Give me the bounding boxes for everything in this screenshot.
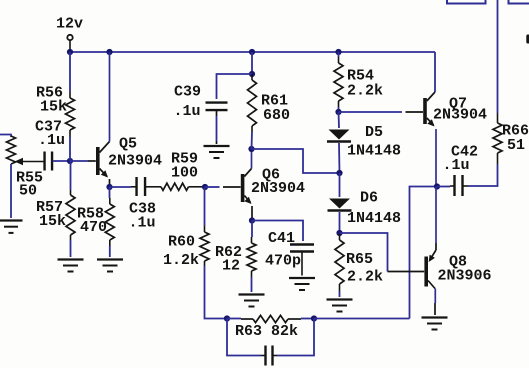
ground R57 [58, 260, 84, 272]
wire node to D5 [338, 112, 341, 128]
svg-text:2N3904: 2N3904 [433, 107, 487, 124]
wire rail to R54 [338, 52, 340, 57]
wire C42 to R66 [463, 164, 498, 186]
svg-text:2N3904: 2N3904 [108, 153, 162, 170]
svg-text:.1u: .1u [38, 132, 65, 149]
transistor Q8 bar [424, 257, 428, 287]
svg-text:.1u: .1u [129, 215, 156, 232]
node R63 right [311, 315, 317, 321]
ground R65 [327, 300, 353, 312]
svg-text:R63 82k: R63 82k [235, 323, 298, 340]
svg-text:51: 51 [507, 137, 525, 154]
diode D6 1N4148 [328, 199, 352, 211]
svg-text:680: 680 [263, 107, 290, 124]
label R63 82k [235, 323, 298, 340]
label R66 [502, 123, 529, 140]
svg-text:Q5: Q5 [119, 136, 137, 153]
resistor R60 1.2k [200, 226, 209, 266]
node Q5 emitter [106, 184, 112, 190]
capacitor C41 470p [290, 245, 314, 252]
svg-text:470: 470 [80, 219, 107, 236]
svg-text:2N3904: 2N3904 [251, 180, 305, 197]
resistor R56 15k [66, 92, 75, 138]
label R59 [171, 151, 198, 168]
wire C37 to base node [53, 160, 71, 162]
label R60 [168, 234, 195, 251]
diode D5 1N4148 [327, 130, 351, 142]
resistor R63 82k [227, 315, 314, 322]
wire emitter node to C38 [110, 186, 137, 188]
svg-text:100: 100 [171, 165, 198, 182]
label 50 [19, 183, 37, 200]
resistor R58 470 [105, 198, 114, 246]
label D5 [365, 124, 383, 141]
wire output to C42 [437, 185, 454, 188]
resistor R55 (pot) [7, 136, 16, 164]
Q6 collector [244, 149, 251, 177]
svg-text:R60: R60 [168, 234, 195, 251]
transistor Q7 bar [423, 98, 427, 124]
wire D5 to midpoint [338, 143, 341, 173]
label C39 [174, 84, 201, 101]
wire base Q5 [70, 160, 96, 162]
wire collector to diodes [252, 149, 340, 173]
wire midpoint to D6 [339, 173, 341, 197]
wire R56 to node [69, 137, 71, 161]
label C37 [35, 119, 62, 136]
ground R55 [0, 221, 23, 233]
node Q7 base [335, 109, 341, 115]
svg-text:2.2k: 2.2k [347, 83, 383, 100]
ground C39 [204, 146, 230, 158]
wire feedback vertical [410, 187, 438, 319]
label Q5 [119, 136, 137, 153]
svg-text:15k: 15k [40, 99, 67, 116]
label .1u C39 [174, 103, 201, 120]
node diode midpoint [336, 170, 342, 176]
box top edge 1 [447, 0, 486, 4]
node Q6 emitter [249, 217, 255, 223]
label 470 R58 [80, 219, 107, 236]
label C41 [268, 230, 295, 247]
label 1N4148 D5 [347, 143, 401, 160]
node R63 left [224, 315, 230, 321]
resistor R65 2.2k [335, 233, 344, 291]
transistor Q5 bar [96, 147, 100, 175]
wire R54 to Q7 base node [338, 107, 340, 112]
wire R55 to ground [10, 164, 12, 218]
capacitor C39 .1u [206, 103, 228, 111]
cut-off glyph right edge [526, 35, 529, 44]
svg-text:C41: C41 [268, 230, 295, 247]
resistor R59 100 [146, 183, 203, 190]
label D6 [360, 190, 378, 207]
svg-text:.1u: .1u [174, 103, 201, 120]
wire emitter to R58 [109, 187, 111, 198]
node Q6 collector [248, 146, 254, 152]
label R54 [347, 68, 374, 85]
ground R62 [239, 295, 265, 307]
label 2.2k R54 [347, 83, 383, 100]
svg-text:D5: D5 [365, 124, 383, 141]
wire input left edge [0, 135, 11, 138]
wiper arrow R55 [15, 158, 45, 165]
label 51 R66 [507, 137, 525, 154]
wire Q7 base [339, 111, 424, 113]
resistor R54 2.2k [334, 57, 343, 107]
label 1.2k R60 [163, 252, 199, 269]
ground C41 [289, 278, 315, 290]
wire node to R60 [204, 187, 206, 226]
wire R62 to ground [251, 277, 253, 292]
svg-text:R65: R65 [346, 251, 373, 268]
wire rail corner to Q7 [434, 52, 436, 92]
capacitor C42 .1u [455, 175, 463, 196]
label 100 R59 [171, 165, 198, 182]
wire C41 to ground [301, 252, 303, 276]
label 12v [56, 16, 83, 33]
node output [434, 183, 440, 189]
svg-text:1.2k: 1.2k [163, 252, 199, 269]
node rail-R54 [335, 49, 341, 55]
capacitor C40 bottom [261, 346, 277, 366]
label C38 [129, 201, 156, 218]
label 2.2k R65 [347, 269, 383, 286]
node rail-R56 [67, 49, 73, 55]
svg-text:C39: C39 [174, 84, 201, 101]
wire C39 branch [217, 74, 253, 99]
label 2N3904 Q6 [251, 180, 305, 197]
node Q6 base [202, 184, 208, 190]
ground R58 [97, 260, 123, 272]
label 15k R56 [40, 99, 67, 116]
svg-text:12v: 12v [56, 16, 83, 33]
node Q8 base net [336, 230, 342, 236]
label 12 R62 [222, 258, 240, 275]
ground Q8 [422, 318, 448, 330]
label .1u C42 [443, 157, 470, 174]
label .1u C38 [129, 215, 156, 232]
resistor R61 680 [248, 74, 257, 132]
wire R66 up to edge [497, 0, 499, 113]
Q5 collector [100, 52, 110, 153]
wire +12V rail [70, 51, 435, 53]
wire C39 to ground [216, 110, 218, 144]
label 1N4148 D6 [347, 210, 401, 227]
Q7 collector [427, 92, 435, 101]
svg-text:D6: D6 [360, 190, 378, 207]
Q8 emitter [429, 187, 436, 263]
svg-text:2.2k: 2.2k [347, 269, 383, 286]
label 2N3904 Q5 [108, 153, 162, 170]
wire cap loop left [227, 319, 261, 356]
node Q5 base [67, 158, 73, 164]
label 2N3904 Q7 [433, 107, 487, 124]
svg-text:12: 12 [222, 258, 240, 275]
label Q8 [449, 254, 467, 271]
node R61-C39 [249, 71, 255, 77]
Q5 emitter [100, 169, 110, 188]
resistor R57 15k [66, 190, 75, 240]
resistor R66 51 [493, 113, 502, 164]
wire R61 to collector node [251, 132, 254, 149]
wire rail to R61 node [251, 52, 253, 74]
Q8 collector [428, 281, 435, 316]
wire cap loop right [277, 319, 314, 356]
wire R60 to feedback [205, 266, 228, 319]
wire D6 node to Q8 base [340, 233, 425, 272]
svg-text:2N3906: 2N3906 [438, 268, 492, 285]
label R57 [36, 199, 63, 216]
label 680 R61 [263, 107, 290, 124]
label Q6 [262, 167, 280, 184]
wire rail to R56 [69, 52, 71, 92]
12v supply terminal [67, 35, 72, 51]
wire R65 to ground [339, 291, 341, 297]
label Q7 [449, 96, 467, 113]
transistor Q6 bar [241, 174, 245, 202]
svg-text:470p: 470p [265, 253, 301, 270]
wire R63 to feedback vert [314, 318, 410, 320]
wire node to R57 [70, 161, 72, 190]
svg-text:15k: 15k [39, 213, 66, 230]
label 2N3906 Q8 [438, 268, 492, 285]
svg-text:50: 50 [19, 183, 37, 200]
svg-text:1N4148: 1N4148 [347, 143, 401, 160]
wire R57 to ground [70, 240, 72, 257]
wire emitter to R62 [251, 221, 253, 238]
label R56 [36, 85, 63, 102]
Q7 emitter [427, 118, 436, 187]
wire R58 to ground [109, 246, 111, 257]
label R61 [261, 93, 288, 110]
Q6 emitter [244, 196, 252, 221]
svg-text:.1u: .1u [443, 157, 470, 174]
node rail-Q5C [106, 49, 112, 55]
capacitor C37 .1u [45, 152, 53, 171]
label R58 [77, 206, 104, 223]
wire node to Q6 base [205, 186, 241, 188]
resistor R62 12 [247, 237, 256, 277]
node rail-R61 [249, 49, 255, 55]
label C42 [451, 144, 478, 161]
label 470p C41 [265, 253, 301, 270]
label R65 [346, 251, 373, 268]
box top edge 2 [509, 0, 529, 4]
wire D6 to lower node [339, 212, 341, 233]
capacitor C38 .1u [137, 177, 146, 196]
svg-text:1N4148: 1N4148 [347, 210, 401, 227]
label R62 [215, 244, 242, 261]
wire emitter to C41 [252, 221, 303, 242]
label R55 [16, 170, 43, 187]
label 15k R57 [39, 213, 66, 230]
label .1u C37 [38, 132, 65, 149]
